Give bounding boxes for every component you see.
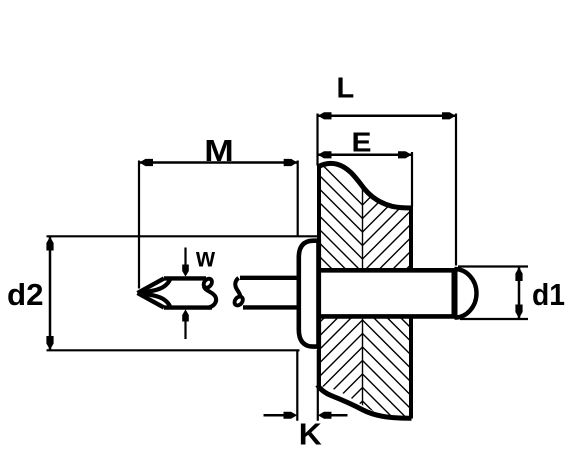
plate cross-section (hatched) — [310, 102, 420, 473]
dimension L extension line right — [455, 114, 457, 266]
mandrel point upper outer line — [138, 278, 165, 293]
mandrel point lower facet curve — [138, 293, 170, 307]
dimension d2 extension line top — [47, 235, 320, 237]
svg-text:E: E — [352, 127, 372, 158]
dimension E extension line right — [411, 152, 413, 207]
rivet body bottom edge — [318, 314, 457, 319]
plate top break line — [318, 163, 412, 208]
dimension M extension line left — [138, 161, 140, 289]
mandrel tip break squiggle — [202, 277, 214, 289]
dimension w top arrow line — [184, 248, 186, 271]
dimension d1 bottom arrow — [515, 305, 522, 319]
mandrel point lower outer line — [138, 293, 165, 308]
dimension M right arrow — [284, 159, 298, 166]
dimension d2 extension line bottom — [47, 349, 300, 351]
dimension d2 bottom arrow — [46, 336, 53, 350]
dimension w bottom arrow line — [184, 315, 186, 339]
mandrel stem break squiggle — [235, 278, 240, 296]
dimension L line — [318, 115, 457, 118]
dimension M left arrow — [139, 159, 153, 166]
dimension M line — [139, 161, 298, 164]
mandrel stem top edge — [240, 276, 300, 280]
dimension d1 extension line bottom — [460, 318, 528, 320]
dimension E line — [318, 154, 413, 157]
dimension L extension line left — [316, 114, 318, 166]
dimension d2 line — [49, 237, 52, 350]
dimension w bottom arrow — [182, 309, 189, 321]
dimension d1 line — [518, 267, 521, 319]
svg-text:w: w — [195, 242, 215, 273]
dimension K left arrow line — [264, 414, 286, 417]
svg-text:d1: d1 — [532, 277, 565, 312]
dimension L right arrow — [442, 112, 456, 119]
plate left edge — [317, 165, 321, 388]
rivet head (domed, white fill) — [299, 241, 319, 347]
svg-text:M: M — [204, 133, 234, 168]
dimension K extension line left — [296, 350, 298, 421]
dimension L left arrow — [318, 112, 332, 119]
rivet head face line — [317, 239, 321, 349]
mandrel tip section bottom edge — [164, 305, 212, 309]
dimension K left arrow — [284, 412, 298, 419]
dimension d1 top arrow — [515, 267, 522, 281]
hatch center line — [362, 160, 364, 424]
dimension d2 top arrow — [46, 237, 53, 251]
svg-text:L: L — [337, 72, 355, 104]
mandrel tip section top edge — [164, 276, 206, 280]
dimension E right arrow — [398, 151, 412, 158]
svg-text:d2: d2 — [7, 277, 43, 312]
svg-text:K: K — [299, 416, 323, 451]
rivet body end dome (mandrel head) — [455, 269, 477, 318]
dimension K right arrow line — [330, 414, 348, 417]
dimension d1 extension line top — [458, 265, 528, 267]
dimension K right arrow — [318, 412, 332, 419]
plate right edge — [409, 206, 413, 419]
hatch chevron lines lower (peaks at center) — [317, 294, 412, 473]
dimension M extension line right — [297, 161, 299, 237]
mandrel stem bottom edge — [243, 305, 300, 309]
rivet body (white fill hole through plate) — [317, 268, 457, 319]
dimension w top arrow — [182, 265, 189, 277]
rivet body top edge — [318, 268, 457, 273]
plate bottom break line — [318, 385, 412, 418]
dimension K extension line right — [317, 350, 319, 421]
mandrel point upper facet curve — [138, 279, 170, 293]
hatch chevron lines upper (valleys at center) — [315, 102, 412, 295]
dimension E left arrow — [318, 151, 332, 158]
rivet body end bar — [452, 268, 458, 318]
